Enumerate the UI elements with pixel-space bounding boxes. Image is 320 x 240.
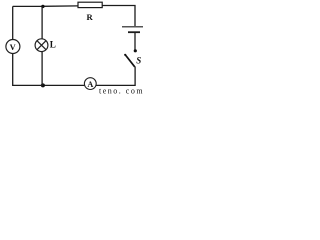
wire lamp branch lower (lamp down to bottom junction) [41, 52, 43, 86]
wire battery negative down to switch top contact [134, 33, 136, 50]
voltmeter V1 circle [6, 40, 20, 54]
lamp L1 cross stroke 2 [37, 41, 46, 50]
wire voltmeter top up to top-left corner [12, 6, 14, 39]
wire top horizontal (L junction to resistor left) [43, 5, 78, 7]
node junction dot bottom (lamp branch) [41, 83, 45, 87]
wire lamp branch upper (top junction down to lamp) [41, 6, 43, 39]
wire resistor right to top-right corner and down to battery [102, 6, 135, 27]
svg-text:teno. com: teno. com [99, 87, 144, 95]
switch S1 top contact dot [134, 49, 137, 52]
svg-text:S: S [136, 55, 141, 65]
battery cell long positive plate [122, 26, 143, 28]
svg-text:L: L [50, 39, 56, 49]
battery cell short negative plate [128, 31, 140, 33]
svg-text:V: V [10, 43, 16, 52]
wire ammeter left to bottom junction [43, 84, 85, 86]
wire bottom junction to bottom-left corner and up to voltmeter [13, 54, 43, 86]
wire top-left horizontal (node top: V branch to L branch) [13, 5, 43, 7]
lamp L1 circle [35, 39, 48, 52]
ammeter A1 circle [84, 78, 96, 90]
lamp L1 cross stroke 1 [37, 41, 46, 50]
resistor R1 body [78, 2, 102, 7]
node junction dot top (lamp branch) [41, 5, 44, 8]
switch S1 open blade [125, 55, 135, 67]
svg-text:A: A [87, 80, 93, 89]
svg-text:R: R [86, 12, 93, 22]
wire switch pivot down to bottom-right corner and left to ammeter [96, 67, 135, 86]
switch S1 blade tip tick [124, 54, 126, 56]
